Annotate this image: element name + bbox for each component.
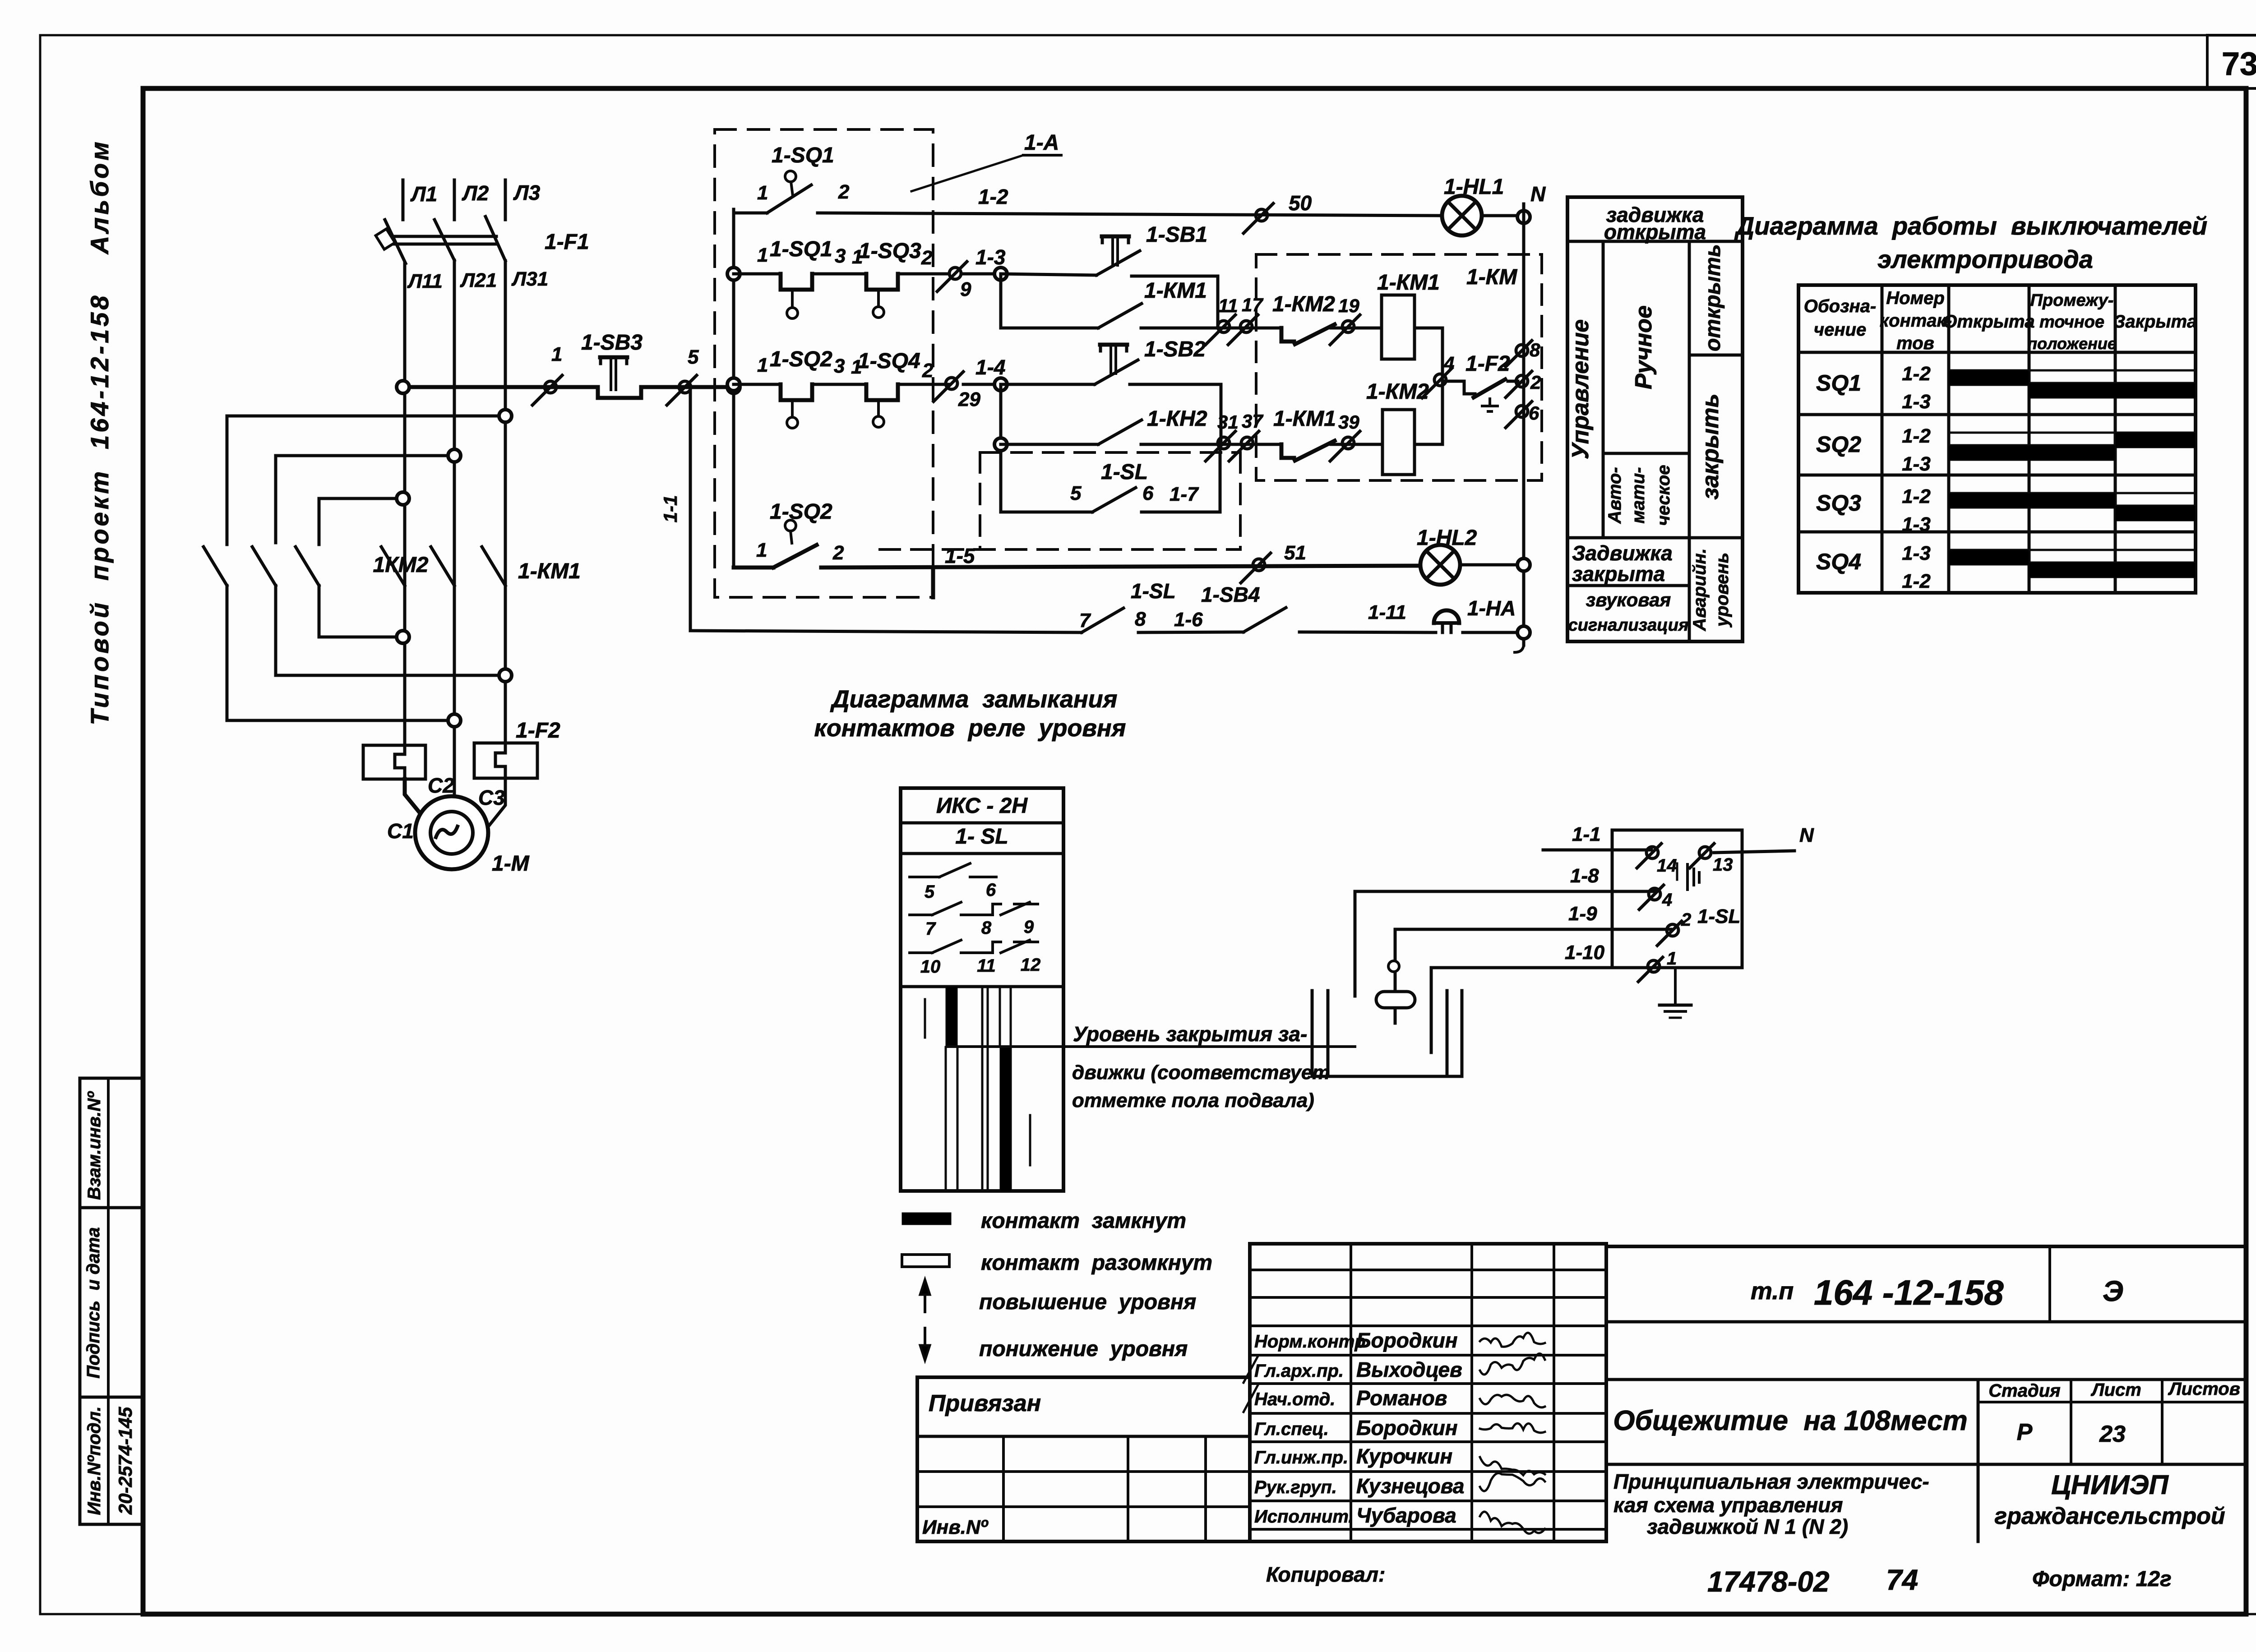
- svg-text:1-10: 1-10: [1565, 941, 1605, 964]
- svg-text:электропривода: электропривода: [1877, 245, 2093, 273]
- svg-text:граждансельстрой: граждансельстрой: [1994, 1503, 2225, 1529]
- svg-text:Открыта: Открыта: [1943, 312, 2034, 332]
- svg-text:1-КН2: 1-КН2: [1147, 407, 1207, 431]
- svg-text:открыть: открыть: [1701, 244, 1725, 351]
- svg-text:1-2: 1-2: [1902, 363, 1931, 385]
- svg-text:73: 73: [2222, 46, 2256, 82]
- svg-text:Типовой проект 164-12-158: Типовой проект 164-12-158 Альбом: [85, 139, 114, 725]
- svg-text:37: 37: [1242, 411, 1263, 432]
- svg-text:Аварийн.: Аварийн.: [1690, 548, 1710, 631]
- svg-text:Э: Э: [2103, 1275, 2123, 1307]
- svg-text:1-КМ1: 1-КМ1: [518, 559, 581, 583]
- svg-text:1-SQ2: 1-SQ2: [770, 500, 832, 524]
- svg-text:Общежитие на 108мест: Общежитие на 108мест: [1613, 1405, 1967, 1436]
- svg-text:11: 11: [1218, 295, 1238, 316]
- svg-text:1-F1: 1-F1: [545, 230, 589, 254]
- svg-text:Ручное: Ручное: [1631, 305, 1657, 389]
- svg-text:1-М: 1-М: [492, 852, 530, 876]
- svg-text:11: 11: [977, 956, 996, 976]
- svg-text:1-SB4: 1-SB4: [1201, 583, 1260, 606]
- svg-text:1-SL: 1-SL: [1697, 905, 1740, 928]
- svg-text:17478-02: 17478-02: [1707, 1565, 1829, 1598]
- svg-text:Обозна-: Обозна-: [1804, 296, 1876, 316]
- svg-text:14: 14: [1657, 856, 1677, 876]
- svg-text:SQ3: SQ3: [1816, 490, 1861, 516]
- svg-text:Закрыта: Закрыта: [2114, 312, 2197, 332]
- svg-text:Уровень закрытия за-: Уровень закрытия за-: [1073, 1022, 1307, 1046]
- svg-text:51: 51: [1284, 542, 1306, 564]
- svg-text:1-7: 1-7: [1170, 483, 1199, 505]
- svg-text:1-3: 1-3: [1902, 391, 1931, 413]
- svg-text:1-F2: 1-F2: [1465, 352, 1510, 376]
- svg-text:1-2: 1-2: [978, 185, 1008, 208]
- svg-text:2: 2: [1530, 372, 1541, 393]
- svg-text:точное: точное: [2039, 313, 2104, 332]
- svg-text:3: 3: [835, 245, 846, 267]
- svg-text:Л1: Л1: [410, 182, 437, 206]
- svg-text:ИКС - 2Н: ИКС - 2Н: [936, 794, 1028, 818]
- svg-text:1-11: 1-11: [1368, 601, 1406, 623]
- svg-text:1-3: 1-3: [975, 245, 1006, 269]
- svg-text:задвижкой N 1 (N 2): задвижкой N 1 (N 2): [1647, 1515, 1848, 1538]
- svg-text:Задвижка: Задвижка: [1572, 541, 1673, 565]
- svg-text:Кузнецова: Кузнецова: [1356, 1474, 1464, 1498]
- svg-text:контактов реле уровня: контактов реле уровня: [814, 715, 1126, 742]
- svg-text:1-КМ1: 1-КМ1: [1273, 407, 1336, 431]
- svg-text:закрыть: закрыть: [1697, 393, 1724, 499]
- svg-text:6: 6: [986, 880, 996, 900]
- svg-text:1-HL1: 1-HL1: [1444, 175, 1504, 199]
- svg-text:1-3: 1-3: [1902, 542, 1931, 564]
- svg-text:Диаграмма работы выключателе: Диаграмма работы выключателей: [1734, 212, 2207, 240]
- svg-text:19: 19: [1338, 295, 1359, 316]
- svg-text:Л11: Л11: [407, 270, 443, 292]
- svg-text:Принципиальная электричес-: Принципиальная электричес-: [1613, 1470, 1929, 1493]
- svg-text:1: 1: [1667, 949, 1677, 969]
- svg-text:1-9: 1-9: [1568, 903, 1597, 925]
- svg-text:1-SL: 1-SL: [1131, 579, 1176, 603]
- svg-text:Норм.контр: Норм.контр: [1254, 1332, 1366, 1352]
- svg-text:3: 3: [834, 355, 845, 377]
- svg-text:4: 4: [1662, 890, 1672, 910]
- svg-text:50: 50: [1289, 191, 1312, 215]
- svg-text:Курочкин: Курочкин: [1356, 1444, 1452, 1468]
- svg-text:8: 8: [1135, 608, 1146, 630]
- svg-text:SQ1: SQ1: [1816, 370, 1861, 396]
- svg-text:Подпись и дата: Подпись и дата: [83, 1227, 103, 1378]
- svg-text:С1: С1: [387, 819, 414, 843]
- svg-text:движки (соответствует: движки (соответствует: [1072, 1061, 1330, 1084]
- svg-text:5: 5: [1070, 482, 1082, 504]
- svg-text:закрыта: закрыта: [1572, 562, 1665, 586]
- svg-text:1-НА: 1-НА: [1467, 596, 1516, 620]
- svg-text:тов: тов: [1896, 333, 1934, 353]
- svg-text:SQ2: SQ2: [1816, 432, 1861, 457]
- svg-text:23: 23: [2099, 1421, 2126, 1447]
- svg-text:Л21: Л21: [460, 269, 497, 291]
- svg-text:Нач.отд.: Нач.отд.: [1254, 1389, 1335, 1409]
- svg-text:Лист: Лист: [2090, 1380, 2141, 1400]
- svg-text:1-КМ1: 1-КМ1: [1377, 271, 1440, 295]
- svg-text:164 -12-158: 164 -12-158: [1814, 1273, 2004, 1312]
- svg-text:Гл.спец.: Гл.спец.: [1254, 1419, 1329, 1439]
- svg-text:отметке пола подвала): отметке пола подвала): [1072, 1089, 1314, 1112]
- svg-text:понижение уровня: понижение уровня: [979, 1337, 1188, 1361]
- svg-text:Бородкин: Бородкин: [1356, 1329, 1458, 1352]
- svg-text:1-SQ1: 1-SQ1: [772, 143, 834, 167]
- svg-text:1-2: 1-2: [1902, 425, 1931, 447]
- svg-text:контак-: контак-: [1880, 311, 1952, 331]
- svg-text:SQ4: SQ4: [1816, 549, 1861, 574]
- svg-text:Р: Р: [2017, 1419, 2033, 1445]
- svg-text:сигнализация: сигнализация: [1568, 616, 1689, 635]
- svg-text:Взам.инв.Nº: Взам.инв.Nº: [84, 1091, 104, 1200]
- svg-text:1-SQ1: 1-SQ1: [770, 237, 832, 261]
- svg-text:1-1: 1-1: [660, 495, 681, 523]
- svg-text:Стадия: Стадия: [1988, 1381, 2060, 1401]
- svg-text:9: 9: [1024, 917, 1034, 937]
- svg-text:2: 2: [832, 542, 844, 564]
- svg-text:N: N: [1799, 824, 1814, 846]
- svg-text:положение: положение: [2027, 334, 2117, 353]
- svg-text:С2: С2: [428, 774, 454, 797]
- svg-text:чение: чение: [1814, 320, 1866, 340]
- svg-text:Романов: Романов: [1356, 1386, 1447, 1410]
- svg-text:ЦНИИЭП: ЦНИИЭП: [2051, 1470, 2169, 1500]
- svg-text:Инв.Nºподл.: Инв.Nºподл.: [84, 1406, 104, 1515]
- svg-text:6: 6: [1529, 402, 1539, 424]
- svg-text:1-4: 1-4: [975, 355, 1005, 379]
- svg-text:ческое: ческое: [1654, 465, 1674, 526]
- svg-text:мати-: мати-: [1628, 467, 1648, 523]
- svg-text:8: 8: [981, 918, 992, 938]
- svg-text:20-2574-145: 20-2574-145: [115, 1407, 136, 1515]
- svg-text:1-2: 1-2: [1902, 485, 1931, 508]
- svg-text:12: 12: [1021, 955, 1041, 975]
- svg-text:N: N: [1530, 182, 1546, 206]
- svg-text:1-КМ2: 1-КМ2: [1366, 380, 1429, 404]
- svg-text:5: 5: [925, 882, 935, 902]
- svg-text:Бородкин: Бородкин: [1356, 1416, 1458, 1440]
- svg-text:Привязан: Привязан: [929, 1390, 1041, 1417]
- svg-text:Исполнит.: Исполнит.: [1254, 1507, 1354, 1527]
- svg-text:1- SL: 1- SL: [955, 825, 1008, 849]
- svg-text:Диаграмма замыкания: Диаграмма замыкания: [830, 686, 1118, 713]
- svg-text:1-1: 1-1: [1572, 823, 1601, 845]
- svg-text:10: 10: [920, 957, 941, 977]
- svg-text:Промежу-: Промежу-: [2030, 291, 2114, 310]
- svg-text:Чубарова: Чубарова: [1356, 1504, 1456, 1527]
- svg-text:Формат: 12г: Формат: 12г: [2032, 1567, 2172, 1591]
- svg-text:74: 74: [1886, 1564, 1918, 1596]
- svg-text:1-SQ2: 1-SQ2: [770, 347, 832, 371]
- svg-text:Листов: Листов: [2168, 1379, 2240, 1399]
- svg-text:1-SB2: 1-SB2: [1144, 337, 1206, 361]
- svg-text:1-SB1: 1-SB1: [1146, 223, 1207, 247]
- svg-text:звуковая: звуковая: [1586, 589, 1671, 610]
- svg-text:1-SB3: 1-SB3: [581, 331, 643, 355]
- svg-text:1-КМ: 1-КМ: [1466, 265, 1517, 289]
- svg-text:13: 13: [1713, 855, 1733, 875]
- svg-text:1-SQ3: 1-SQ3: [859, 239, 921, 263]
- svg-text:8: 8: [1530, 339, 1540, 360]
- svg-text:9: 9: [960, 278, 971, 300]
- svg-text:1-5: 1-5: [945, 544, 975, 568]
- svg-text:1-SQ4: 1-SQ4: [858, 349, 920, 373]
- svg-text:17: 17: [1242, 294, 1263, 315]
- svg-text:Выходцев: Выходцев: [1356, 1358, 1462, 1381]
- svg-text:Гл.арх.пр.: Гл.арх.пр.: [1254, 1361, 1344, 1381]
- svg-text:2: 2: [921, 247, 933, 269]
- svg-text:1-КМ1: 1-КМ1: [1144, 279, 1207, 303]
- svg-text:7: 7: [925, 919, 936, 939]
- svg-text:1-SL: 1-SL: [1101, 460, 1148, 484]
- svg-text:29: 29: [958, 388, 980, 411]
- svg-text:Номер: Номер: [1886, 288, 1945, 308]
- svg-text:1-3: 1-3: [1902, 453, 1931, 475]
- svg-text:1-F2: 1-F2: [516, 719, 560, 743]
- svg-text:уровень: уровень: [1712, 553, 1732, 628]
- svg-text:1: 1: [757, 182, 768, 204]
- svg-text:7: 7: [1079, 609, 1091, 632]
- svg-text:Л3: Л3: [513, 181, 541, 204]
- svg-text:Л31: Л31: [511, 268, 548, 290]
- svg-text:1: 1: [757, 354, 768, 376]
- svg-text:Рук.груп.: Рук.груп.: [1254, 1477, 1337, 1497]
- svg-text:Авто-: Авто-: [1605, 467, 1625, 524]
- svg-text:Гл.инж.пр.: Гл.инж.пр.: [1254, 1448, 1348, 1467]
- svg-text:1-КМ2: 1-КМ2: [1272, 292, 1335, 316]
- svg-text:Инв.Nº: Инв.Nº: [922, 1516, 989, 1538]
- svg-text:1-8: 1-8: [1570, 865, 1599, 887]
- svg-text:контакт разомкнут: контакт разомкнут: [981, 1251, 1212, 1275]
- svg-text:С3: С3: [478, 786, 505, 809]
- svg-text:1: 1: [551, 343, 562, 365]
- svg-text:5: 5: [688, 346, 699, 368]
- svg-text:1-3: 1-3: [1902, 513, 1931, 535]
- svg-text:1КМ2: 1КМ2: [373, 553, 429, 577]
- svg-text:кая схема управления: кая схема управления: [1613, 1493, 1843, 1517]
- svg-text:4: 4: [1443, 353, 1454, 374]
- svg-text:2: 2: [838, 181, 850, 203]
- svg-text:6: 6: [1142, 482, 1154, 504]
- svg-text:1-6: 1-6: [1174, 609, 1203, 631]
- svg-text:1: 1: [757, 244, 768, 266]
- svg-text:1: 1: [756, 539, 767, 561]
- svg-text:Л2: Л2: [462, 181, 489, 205]
- svg-text:31: 31: [1217, 411, 1239, 433]
- svg-text:1-А: 1-А: [1024, 131, 1059, 155]
- svg-text:1-HL2: 1-HL2: [1417, 526, 1477, 550]
- svg-text:повышение уровня: повышение уровня: [979, 1290, 1196, 1314]
- svg-text:т.п: т.п: [1751, 1278, 1794, 1305]
- svg-text:2: 2: [1681, 910, 1691, 930]
- svg-text:1-2: 1-2: [1902, 570, 1931, 592]
- svg-text:39: 39: [1338, 411, 1359, 433]
- svg-text:контакт замкнут: контакт замкнут: [981, 1209, 1186, 1233]
- svg-text:Управление: Управление: [1567, 319, 1594, 459]
- svg-text:Копировал:: Копировал:: [1266, 1563, 1385, 1586]
